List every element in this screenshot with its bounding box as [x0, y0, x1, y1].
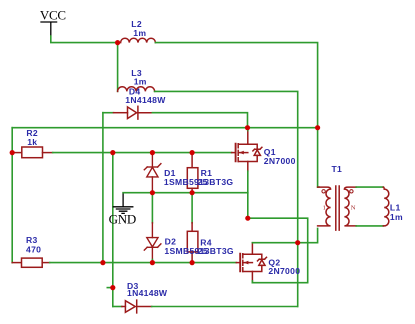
svg-text:N: N — [351, 204, 356, 211]
inductor L1 — [383, 187, 389, 226]
svg-text:GND: GND — [109, 211, 136, 226]
node gate2/D4 junction — [100, 260, 105, 265]
transistor Q1 2N7000 — [232, 131, 262, 172]
wire gate1 drop to D3 — [112, 153, 114, 307]
wire ground net — [123, 192, 248, 194]
wire Q1 source down — [247, 171, 249, 218]
transformer T1 secondary polarity dot — [350, 190, 353, 193]
wire drain1 horizontal — [12, 127, 317, 129]
transformer T1 core — [336, 186, 339, 230]
svg-text:25: 25 — [198, 246, 208, 256]
svg-text:470: 470 — [26, 245, 41, 255]
diode D4 1N4148W — [114, 106, 153, 119]
wire Q1 drain — [247, 128, 249, 131]
node gate1/D1 junction — [150, 150, 155, 155]
transistor Q2 arrow — [244, 261, 249, 265]
resistor R4 — [187, 223, 198, 263]
inductor L3 — [118, 87, 155, 92]
svg-text:2N7000: 2N7000 — [268, 266, 300, 276]
wire R4 column — [191, 193, 193, 223]
node drain1/L2 junction — [315, 125, 320, 130]
resistor R1 — [187, 153, 198, 193]
resistor R3 470 — [12, 258, 50, 267]
svg-text:VCC: VCC — [40, 8, 66, 23]
wire L2 to right riser — [155, 43, 317, 128]
zener diode D1 1SMB5913BT3G — [144, 153, 161, 193]
node drain2 junction — [295, 240, 300, 245]
svg-text:T1: T1 — [332, 164, 343, 174]
wire VCC stem — [51, 36, 118, 43]
wire D2 column — [151, 193, 153, 223]
svg-text:1: 1 — [323, 204, 326, 211]
ground — [109, 193, 136, 227]
svg-text:1k: 1k — [27, 137, 37, 147]
node VCC junction — [115, 40, 120, 45]
node gate1/R1 junction — [190, 150, 195, 155]
svg-text:1m: 1m — [134, 77, 147, 87]
node gnd/D1-D2 junction — [150, 190, 155, 195]
wire D3 cathode — [152, 306, 298, 308]
transistor Q1 arrow — [239, 151, 244, 155]
wire drain2 — [252, 228, 317, 242]
resistor R2 1k — [12, 147, 53, 158]
wire gate1 horizontal — [53, 152, 232, 154]
node gate2/D2 junction — [150, 260, 155, 265]
wire stub at D3 node — [107, 287, 113, 289]
node gate1/D3 column junction — [110, 150, 115, 155]
svg-text:25: 25 — [198, 177, 208, 187]
svg-text:2N7000: 2N7000 — [264, 156, 296, 166]
wire L3 drop — [117, 43, 119, 92]
wire gate2 horizontal — [50, 262, 237, 264]
inductor L2 — [118, 38, 156, 42]
wire D2 to gate2 — [151, 260, 153, 263]
svg-text:1N4148W: 1N4148W — [125, 95, 166, 105]
wire L3 to right riser (long vertical down to D3 wire) — [155, 91, 298, 306]
node drain1/D4 junction — [245, 125, 250, 130]
svg-text:R3: R3 — [26, 235, 38, 245]
wire transformer primary top — [318, 128, 319, 187]
zener diode D2 1SMB5913BT3G — [144, 223, 161, 260]
power port VCC — [40, 8, 66, 36]
diode D3 1N4148W — [113, 306, 122, 308]
transformer T1 secondary winding — [344, 187, 356, 226]
svg-text:1m: 1m — [390, 212, 403, 222]
transistor Q2 2N7000 — [236, 243, 266, 281]
node source junction — [245, 216, 250, 221]
wire secondary to L1 bottom — [356, 225, 383, 227]
transformer T1 primary polarity dot — [322, 190, 325, 193]
node R2 left junction — [10, 150, 15, 155]
wire Q2 source — [251, 281, 253, 283]
node gate2/R4 junction — [190, 260, 195, 265]
svg-text:1m: 1m — [133, 28, 146, 38]
wire D4 anode column — [102, 113, 104, 263]
wire secondary to L1 top — [356, 186, 383, 188]
wire D4 cathode to drain1 — [152, 113, 247, 128]
wire D4 left — [103, 112, 114, 114]
node D3 anode junction — [110, 285, 115, 290]
transformer T1 primary winding — [318, 187, 331, 226]
wire source link — [248, 218, 308, 283]
wire left column — [11, 128, 13, 263]
node gnd/R1-R4 junction — [190, 190, 195, 195]
svg-text:1N4148W: 1N4148W — [127, 288, 168, 298]
